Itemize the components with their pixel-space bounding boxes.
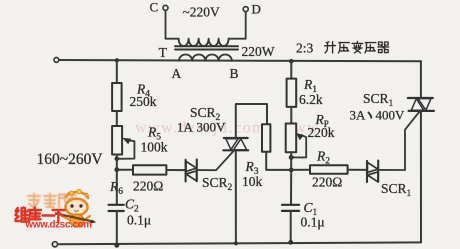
- resistor R4: [112, 83, 122, 111]
- svg-text:220Ω: 220Ω: [312, 175, 342, 190]
- wire to R6: [117, 169, 133, 171]
- wire bottom bus: [58, 242, 422, 244]
- resistor R3: [262, 124, 270, 152]
- svg-text:300V: 300V: [197, 120, 227, 135]
- transformer core: [175, 46, 238, 49]
- svg-text:10k: 10k: [242, 174, 263, 189]
- hanzi sheng: [325, 42, 336, 53]
- hanzi ya: [338, 43, 349, 53]
- potentiometer R5: [112, 126, 122, 155]
- hanzi qi: [378, 42, 389, 53]
- wire R6 to diac: [166, 169, 185, 171]
- svg-text:220k: 220k: [308, 125, 335, 140]
- svg-text:220Ω: 220Ω: [133, 179, 163, 194]
- potentiometer Rp: [286, 124, 297, 153]
- node R5 bottom: [115, 157, 120, 162]
- capacitor C2: [109, 205, 124, 211]
- terminal D: [243, 7, 248, 12]
- node top bus / R4: [115, 58, 119, 62]
- svg-text:400V: 400V: [376, 108, 406, 123]
- svg-text:SCR1: SCR1: [381, 181, 412, 199]
- hanzi ya2: [365, 43, 376, 53]
- transformer T primary: [166, 10, 179, 38]
- wire diac to SCR1 gate: [378, 111, 419, 170]
- svg-text:0.1μ: 0.1μ: [301, 215, 325, 230]
- wire R2 to diac: [348, 169, 367, 171]
- svg-text:220W: 220W: [242, 44, 275, 59]
- wire diac to SCR2 gate: [197, 151, 234, 170]
- svg-text:0.1μ: 0.1μ: [127, 213, 151, 228]
- svg-text:6.2k: 6.2k: [299, 92, 323, 107]
- thyristor SCR2: [223, 138, 248, 150]
- diac trigger of SCR2: [186, 159, 197, 181]
- svg-text:SCR2: SCR2: [202, 175, 233, 193]
- svg-text:1A: 1A: [177, 120, 194, 135]
- wire node to R2: [291, 169, 310, 171]
- node bottom bus / C1: [288, 240, 293, 245]
- terminal input top-left: [54, 58, 59, 63]
- svg-text:100k: 100k: [141, 140, 168, 155]
- wiper of R5: [117, 140, 134, 159]
- svg-text:www.dzsc.com: www.dzsc.com: [25, 220, 93, 231]
- svg-text:~220V: ~220V: [183, 5, 221, 20]
- thyristor SCR1: [408, 98, 434, 111]
- orange blurred line: [28, 193, 76, 208]
- svg-text:2:3: 2:3: [296, 41, 314, 56]
- watermark pink row www.dzscjd.com: [135, 120, 320, 137]
- wire R3 bottom to node: [266, 152, 291, 170]
- wire top bus: [57, 60, 421, 61]
- wire SCR2 anode up and over to R3: [236, 104, 267, 138]
- svg-text:160~260V: 160~260V: [37, 151, 104, 168]
- node R6 junction: [114, 167, 119, 172]
- svg-text:C: C: [150, 0, 159, 15]
- node C1 top: [289, 168, 294, 173]
- mascot: [56, 189, 97, 227]
- svg-text:SCR1: SCR1: [363, 91, 394, 109]
- wiper of Rp: [291, 135, 306, 158]
- wire SCR2 cathode down: [235, 150, 237, 243]
- wire R4 stub: [116, 60, 118, 83]
- svg-text:250k: 250k: [130, 94, 157, 109]
- svg-text:A: A: [172, 66, 182, 81]
- resistor R2: [310, 165, 348, 174]
- resistor R1: [290, 61, 292, 78]
- wire SCR1 cathode down: [420, 111, 422, 243]
- capacitor C1: [290, 170, 292, 204]
- terminal input bottom-left: [52, 242, 57, 247]
- wire R1 to Rp: [290, 107, 292, 124]
- node top bus / R1: [289, 59, 294, 64]
- spear: [56, 214, 93, 222]
- wire Rp bottom down: [290, 152, 292, 170]
- transformer T secondary: [179, 55, 232, 61]
- red hanzi wei ku yi xia: [16, 208, 65, 222]
- svg-text:B: B: [230, 66, 239, 81]
- resistor R6: [133, 165, 166, 174]
- hanzi bian: [352, 41, 363, 53]
- node Rp bottom: [289, 155, 294, 160]
- wire SCR1 anode up: [420, 61, 422, 98]
- wire node to node: [116, 155, 118, 205]
- svg-text:R2: R2: [316, 149, 330, 167]
- node SCR2 bottom bus: [234, 241, 238, 245]
- diac trigger of SCR1: [367, 161, 378, 183]
- terminal C: [163, 5, 168, 10]
- svg-text:3A: 3A: [350, 108, 367, 123]
- svg-text:D: D: [252, 2, 261, 17]
- wire R4 to R5: [116, 111, 118, 126]
- svg-text:T: T: [159, 46, 168, 61]
- node bottom bus / C2: [114, 243, 119, 248]
